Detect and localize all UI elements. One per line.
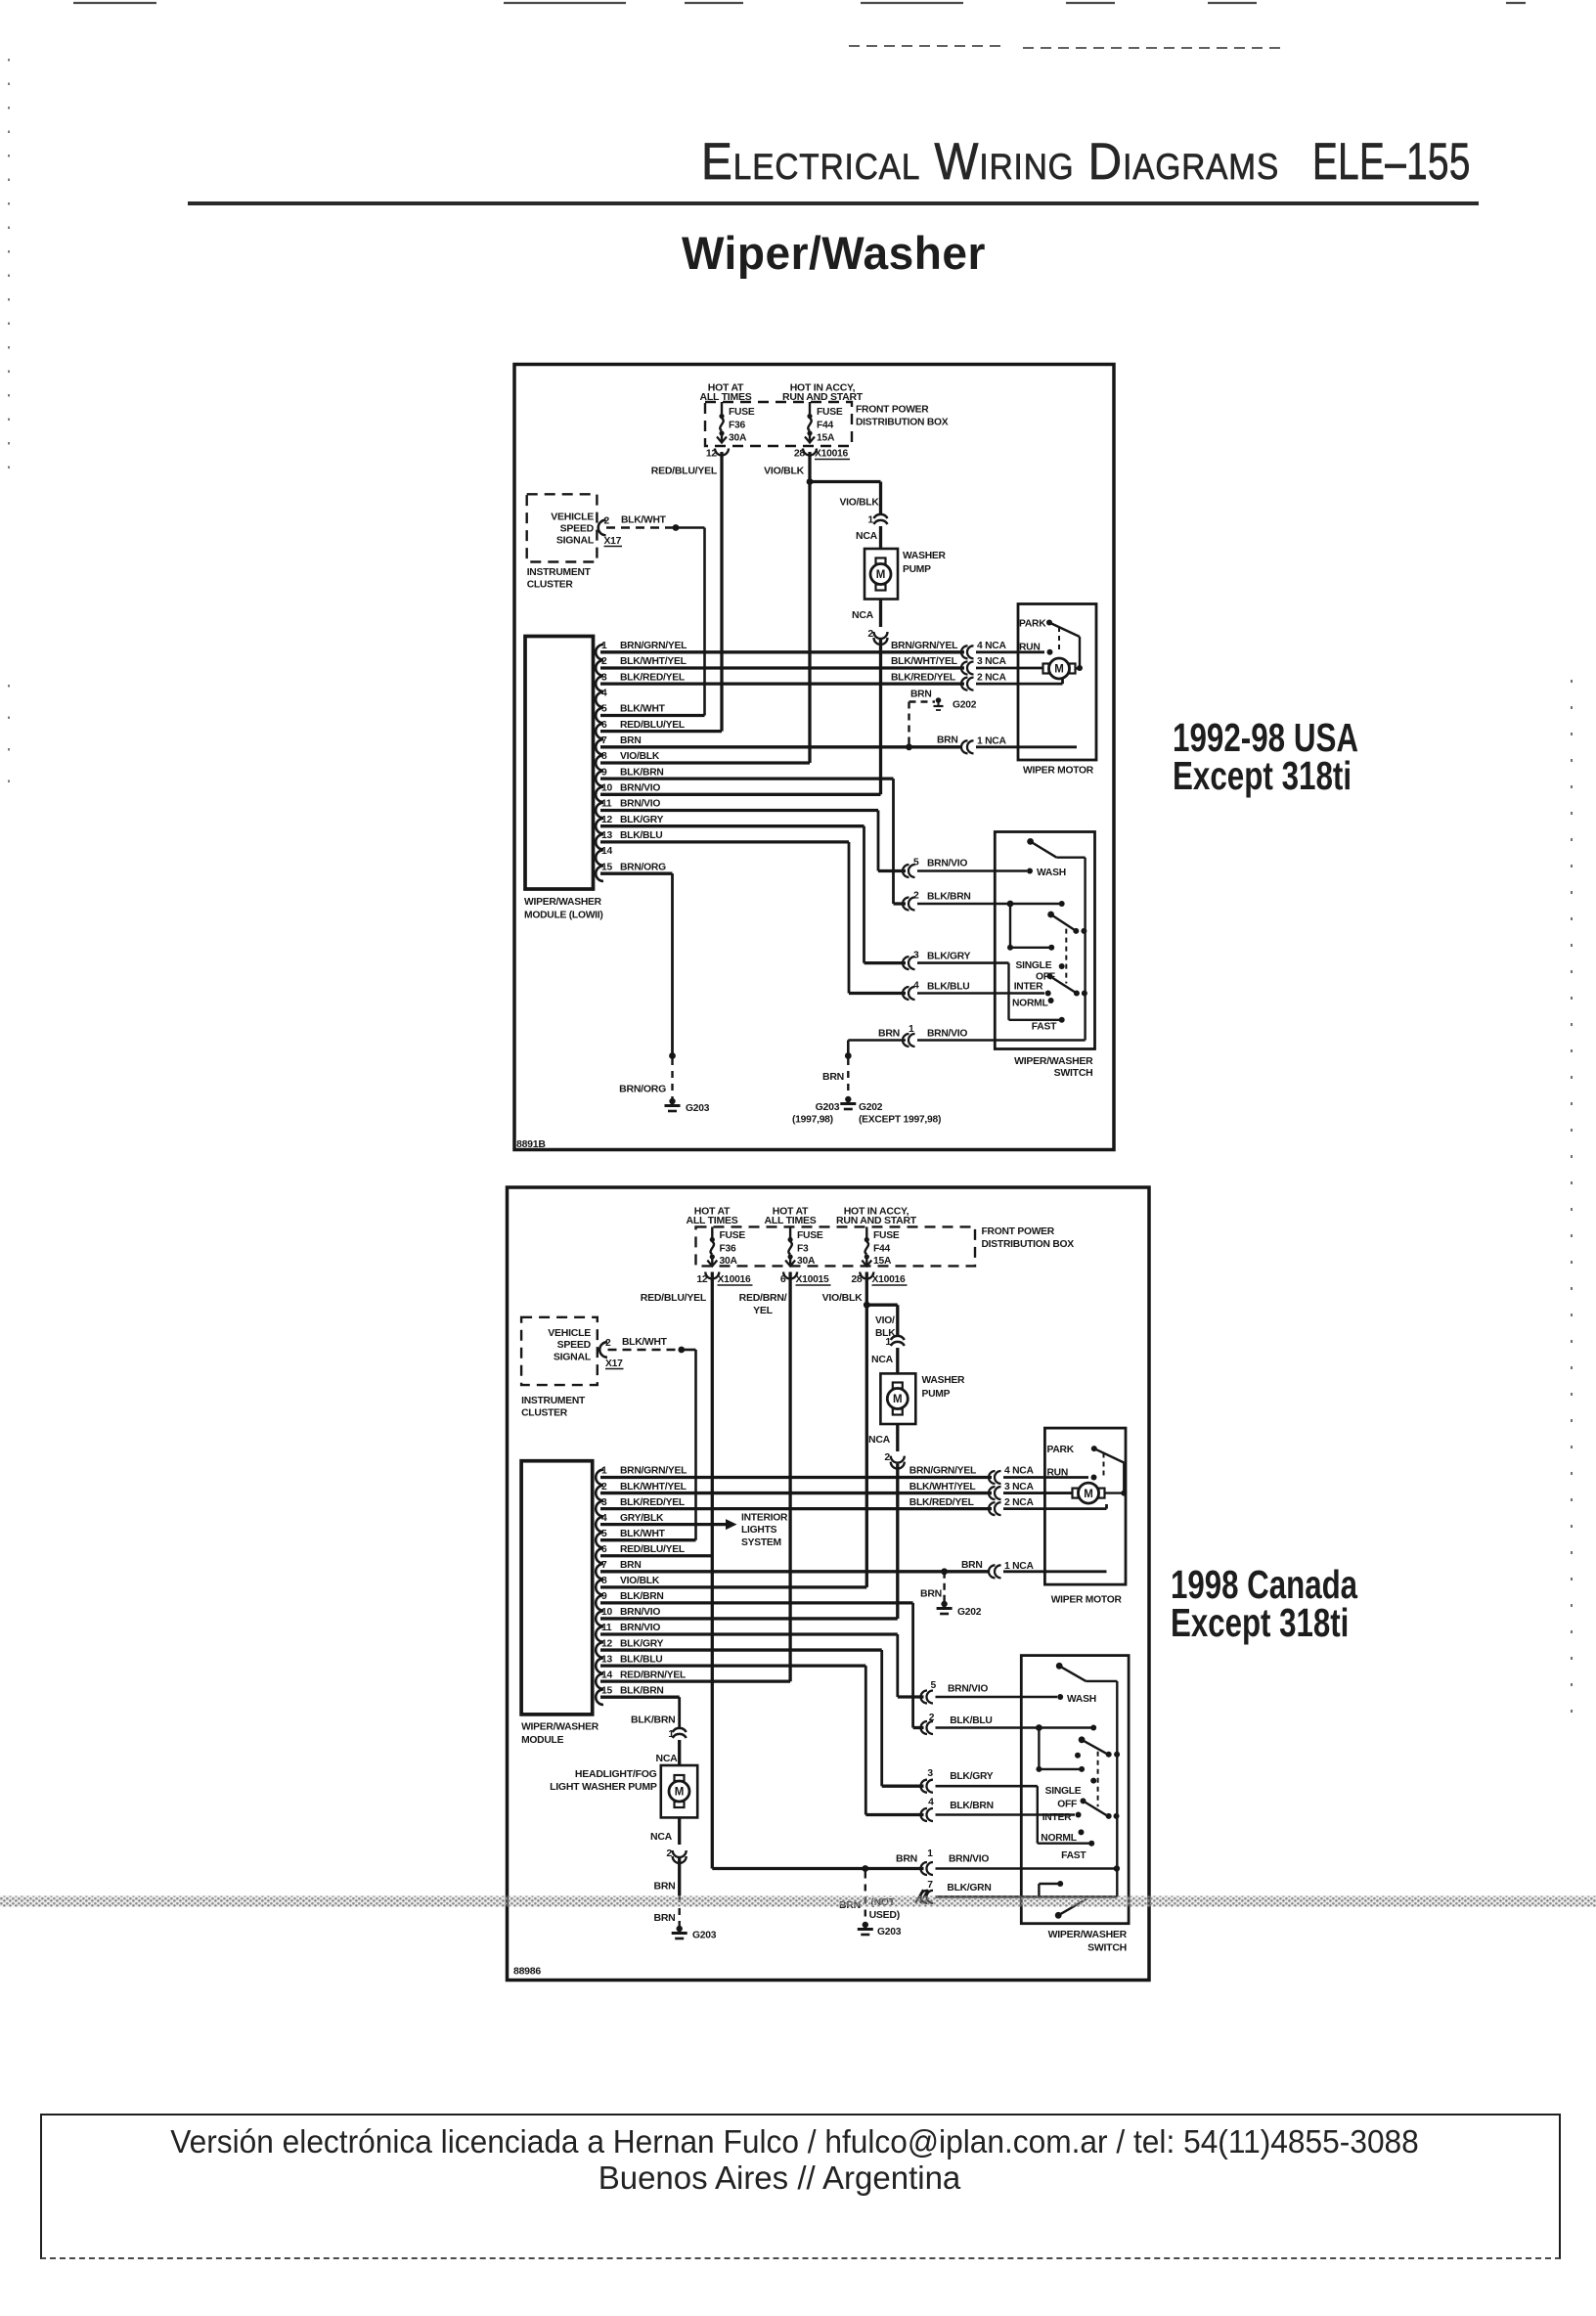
svg-text:RED/BRN/: RED/BRN/ bbox=[739, 1292, 787, 1304]
wiper/washer module box D2 bbox=[521, 1461, 599, 1746]
svg-text:WIPER/WASHER: WIPER/WASHER bbox=[521, 1722, 599, 1733]
svg-text:3: 3 bbox=[927, 1768, 933, 1779]
front power distribution box (dashed) D1 bbox=[705, 402, 949, 446]
module pin 3 BLK/RED/YEL D1 bbox=[596, 672, 964, 691]
wire VIO/BLK from F44 D2 bbox=[822, 1272, 867, 1587]
svg-text:5: 5 bbox=[601, 1529, 607, 1539]
connector X17 pin 2 D1 bbox=[598, 516, 622, 548]
svg-text:5: 5 bbox=[913, 858, 919, 868]
svg-text:G203: G203 bbox=[816, 1101, 840, 1113]
module pin 2 BLK/WHT/YEL D1 bbox=[596, 656, 964, 676]
drawing number 8891B bbox=[516, 1138, 546, 1150]
svg-text:RUN: RUN bbox=[1047, 1468, 1069, 1479]
svg-text:BLK/WHT: BLK/WHT bbox=[621, 515, 667, 526]
svg-text:6: 6 bbox=[601, 1544, 607, 1555]
motor run contact D1 bbox=[1019, 643, 1053, 655]
svg-text:DISTRIBUTION BOX: DISTRIBUTION BOX bbox=[982, 1239, 1075, 1250]
inline connector 3 wire BLK/GRY D1 bbox=[903, 951, 1009, 970]
svg-text:14: 14 bbox=[601, 846, 612, 857]
svg-text:X17: X17 bbox=[604, 536, 622, 547]
svg-text:G202: G202 bbox=[859, 1102, 883, 1113]
svg-text:WASH: WASH bbox=[1037, 868, 1066, 878]
switch dashed detent D1 bbox=[1065, 929, 1067, 984]
wire pin15 BLK/BRN to headlight washer pump D2 bbox=[631, 1697, 680, 1727]
svg-text:F36: F36 bbox=[720, 1244, 737, 1255]
inline connector 2 NCA (pump low) D1 bbox=[852, 600, 888, 646]
inline connector 3 wire BLK/GRY D2 bbox=[921, 1768, 1038, 1793]
ground G203 (module) D1 bbox=[619, 1084, 710, 1115]
motor park contact D2 bbox=[1047, 1445, 1097, 1455]
front power distribution box (dashed) D2 bbox=[696, 1226, 1075, 1266]
svg-text:X10016: X10016 bbox=[718, 1274, 752, 1285]
svg-text:BLK/WHT/YEL: BLK/WHT/YEL bbox=[620, 656, 687, 667]
switch aux contact D2 bbox=[1039, 1881, 1063, 1896]
svg-text:BLK/WHT: BLK/WHT bbox=[620, 1529, 666, 1539]
svg-text:MODULE (LOWII): MODULE (LOWII) bbox=[524, 911, 603, 921]
svg-text:NCA: NCA bbox=[856, 530, 878, 542]
svg-text:FUSE: FUSE bbox=[797, 1230, 823, 1241]
svg-text:12: 12 bbox=[601, 1638, 612, 1649]
wire motor low D1 bbox=[976, 679, 1063, 684]
svg-text:WASHER: WASHER bbox=[922, 1375, 966, 1386]
svg-text:1: 1 bbox=[885, 1336, 891, 1348]
svg-text:30A: 30A bbox=[729, 433, 747, 444]
svg-text:15: 15 bbox=[601, 862, 612, 872]
motor run contact D2 bbox=[1047, 1468, 1097, 1481]
svg-text:M: M bbox=[675, 1787, 685, 1799]
svg-text:(EXCEPT 1997,98): (EXCEPT 1997,98) bbox=[859, 1115, 941, 1126]
svg-text:BLK/RED/YEL: BLK/RED/YEL bbox=[909, 1497, 974, 1508]
scan artifact left margin dots bbox=[8, 59, 10, 802]
switch parked contact D2 bbox=[1036, 1766, 1085, 1772]
svg-text:28: 28 bbox=[851, 1273, 863, 1285]
svg-text:BRN/VIO: BRN/VIO bbox=[927, 859, 967, 869]
module pin 5 BLK/WHT D1 bbox=[596, 704, 704, 724]
svg-text:2: 2 bbox=[601, 1482, 607, 1492]
ground G203 (switch) D2 bbox=[858, 1922, 902, 1937]
svg-text:13: 13 bbox=[601, 1654, 612, 1665]
fuse F44 15A D1 bbox=[794, 402, 843, 460]
svg-text:BRN/VIO: BRN/VIO bbox=[620, 1607, 660, 1618]
node BRN to ground D2 bbox=[839, 1865, 868, 1923]
svg-text:BLK/BLU: BLK/BLU bbox=[950, 1715, 992, 1726]
node: VIO/BLK tap to washer pump D1 bbox=[807, 478, 881, 515]
inline connector 2 NCA (headlight pump low) D2 bbox=[650, 1817, 687, 1863]
svg-text:WIPER/WASHER: WIPER/WASHER bbox=[1048, 1929, 1128, 1940]
svg-text:BRN: BRN bbox=[654, 1912, 676, 1924]
svg-text:VEHICLE: VEHICLE bbox=[551, 512, 594, 523]
svg-text:RED/BLU/YEL: RED/BLU/YEL bbox=[620, 720, 685, 731]
hot-in-accy label D1 bbox=[782, 382, 864, 404]
svg-text:BLK/BRN: BLK/BRN bbox=[950, 1801, 994, 1811]
module pin 15 BLK/BRN D2 bbox=[596, 1685, 679, 1705]
switch wash contact D2 bbox=[1057, 1694, 1096, 1705]
svg-text:BRN/GRN/YEL: BRN/GRN/YEL bbox=[620, 1466, 687, 1477]
svg-text:WASH: WASH bbox=[1067, 1694, 1096, 1705]
module pin 12 BLK/GRY D2 bbox=[596, 1638, 881, 1658]
svg-text:VIO/BLK: VIO/BLK bbox=[840, 498, 880, 509]
connector X10015 D2 bbox=[796, 1274, 831, 1285]
switch OFF position D1 bbox=[1036, 972, 1055, 983]
washer pump M D1 bbox=[864, 549, 947, 600]
svg-text:FRONT POWER: FRONT POWER bbox=[856, 405, 929, 416]
inline connector 2 NCA wire BLK/RED/YEL D1 bbox=[891, 672, 1006, 690]
inline connector 5 wire BRN/VIO (wash) D2 bbox=[921, 1680, 1057, 1704]
ground G203 (headlight pump) D2 bbox=[672, 1926, 717, 1941]
svg-text:FUSE: FUSE bbox=[817, 407, 843, 418]
svg-text:BLK/GRN: BLK/GRN bbox=[947, 1883, 991, 1893]
svg-text:VIO/BLK: VIO/BLK bbox=[620, 751, 660, 762]
svg-text:12: 12 bbox=[601, 815, 612, 825]
svg-text:NCA: NCA bbox=[656, 1753, 679, 1764]
switch NORML position D2 bbox=[1041, 1829, 1084, 1844]
svg-text:BLK/GRY: BLK/GRY bbox=[950, 1771, 994, 1782]
wire label VIO/BLK (pump feed) D1 bbox=[840, 498, 880, 509]
svg-text:INSTRUMENT: INSTRUMENT bbox=[527, 567, 592, 578]
svg-text:4 NCA: 4 NCA bbox=[1004, 1466, 1034, 1477]
inline connector 4 wire BLK/BLU D1 bbox=[903, 981, 1044, 1001]
svg-text:BLK/BLU: BLK/BLU bbox=[927, 982, 969, 993]
svg-text:SWITCH: SWITCH bbox=[1054, 1067, 1093, 1079]
switch INTER position D1 bbox=[1014, 982, 1051, 997]
svg-text:SINGLE: SINGLE bbox=[1016, 960, 1052, 971]
svg-text:4 NCA: 4 NCA bbox=[977, 641, 1006, 651]
module pin 13 BLK/BLU D2 bbox=[596, 1654, 865, 1673]
svg-text:7: 7 bbox=[601, 735, 607, 746]
svg-text:BLK/BLU: BLK/BLU bbox=[620, 1654, 662, 1665]
svg-text:CLUSTER: CLUSTER bbox=[527, 580, 574, 591]
inline connector 3 NCA wire BLK/WHT/YEL D1 bbox=[891, 656, 1006, 674]
inline connector 7 wire BLK/GRN (not used) D2 bbox=[869, 1880, 1118, 1921]
diagram 1 frame (1992-98 USA) bbox=[514, 365, 1114, 1150]
svg-text:RUN AND START: RUN AND START bbox=[782, 391, 864, 403]
svg-text:BRN/ORG: BRN/ORG bbox=[619, 1084, 666, 1095]
svg-text:BRN/VIO: BRN/VIO bbox=[620, 799, 660, 810]
wire label VIO/BLK (pump feed) D2 bbox=[875, 1315, 896, 1339]
wiper/washer switch box D2 bbox=[1021, 1656, 1129, 1954]
switch SINGLE position D1 bbox=[1016, 960, 1065, 971]
scan artifact gray band bbox=[0, 1896, 1596, 1907]
connector X17 pin 2 D2 bbox=[599, 1338, 623, 1369]
svg-text:10: 10 bbox=[601, 783, 612, 794]
node BRN splice D2 bbox=[920, 1568, 948, 1602]
svg-text:M: M bbox=[1084, 1489, 1093, 1500]
svg-text:13: 13 bbox=[601, 830, 612, 841]
svg-text:2 NCA: 2 NCA bbox=[977, 672, 1006, 683]
svg-text:1 NCA: 1 NCA bbox=[977, 736, 1006, 747]
svg-text:RED/BLU/YEL: RED/BLU/YEL bbox=[620, 1544, 685, 1555]
fuse F36 30A D2 bbox=[696, 1226, 745, 1285]
inline connector 1 wire BRN/VIO D2 bbox=[896, 1848, 1120, 1875]
svg-text:USED): USED) bbox=[869, 1909, 900, 1921]
svg-text:2: 2 bbox=[601, 656, 607, 667]
module pin 4 D1 bbox=[596, 689, 607, 708]
wire pin15 BRN/ORG to ground D1 bbox=[669, 873, 676, 1099]
svg-text:NCA: NCA bbox=[852, 609, 874, 621]
svg-text:BRN/VIO: BRN/VIO bbox=[927, 1029, 967, 1040]
svg-text:BRN/GRN/YEL: BRN/GRN/YEL bbox=[620, 641, 687, 651]
svg-text:BLK/BRN: BLK/BRN bbox=[620, 1591, 664, 1602]
svg-text:1: 1 bbox=[601, 641, 607, 651]
wire BRN to ground (headlight pump) D2 bbox=[654, 1858, 680, 1927]
wiper motor M D2 bbox=[1073, 1483, 1125, 1503]
module pin 3 BLK/RED/YEL D2 bbox=[596, 1497, 992, 1517]
wire run contact D1 bbox=[976, 650, 1044, 653]
switch fast branch D1 bbox=[1009, 963, 1065, 1023]
switch FAST label D1 bbox=[1032, 1022, 1057, 1033]
svg-text:NCA: NCA bbox=[871, 1354, 894, 1365]
svg-text:ALL TIMES: ALL TIMES bbox=[765, 1215, 817, 1226]
hot-in-accy label D2 bbox=[836, 1206, 917, 1227]
svg-text:BRN: BRN bbox=[937, 735, 958, 746]
svg-text:F3: F3 bbox=[797, 1244, 809, 1255]
module pin 11 BRN/VIO D1 bbox=[596, 799, 878, 819]
svg-text:BLK/GRY: BLK/GRY bbox=[620, 1638, 664, 1649]
svg-text:2: 2 bbox=[666, 1848, 672, 1859]
wire motor armature D1 bbox=[976, 667, 1043, 670]
svg-text:BLK/WHT/YEL: BLK/WHT/YEL bbox=[891, 656, 957, 667]
interior lights system arrow D2 bbox=[726, 1513, 788, 1549]
svg-text:M: M bbox=[1054, 664, 1064, 676]
svg-text:RED/BLU/YEL: RED/BLU/YEL bbox=[641, 1292, 707, 1304]
svg-text:PARK: PARK bbox=[1019, 619, 1046, 630]
instrument cluster: vehicle speed signal box D1 bbox=[527, 494, 598, 590]
wire riser pin11 to switch 5 D1 bbox=[878, 811, 906, 871]
svg-text:MODULE: MODULE bbox=[521, 1735, 563, 1746]
svg-text:2: 2 bbox=[913, 891, 919, 902]
svg-text:28: 28 bbox=[794, 448, 806, 460]
svg-text:RED/BRN/YEL: RED/BRN/YEL bbox=[620, 1670, 686, 1680]
svg-text:M: M bbox=[876, 569, 886, 581]
svg-text:VIO/BLK: VIO/BLK bbox=[764, 466, 805, 477]
wire RED/BLU/YEL from F36 D2 bbox=[641, 1272, 713, 1869]
svg-text:FAST: FAST bbox=[1032, 1022, 1057, 1033]
switch bottom lever D2 bbox=[1055, 1899, 1087, 1919]
svg-text:1: 1 bbox=[867, 514, 873, 526]
svg-text:GRY/BLK: GRY/BLK bbox=[620, 1513, 664, 1524]
switch speed lever D2 bbox=[1079, 1736, 1120, 1757]
switch wash lever D2 bbox=[1056, 1663, 1118, 1681]
svg-text:NORML: NORML bbox=[1012, 999, 1048, 1009]
svg-text:BRN/ORG: BRN/ORG bbox=[620, 862, 666, 872]
wire BRN to ground D1 bbox=[822, 1041, 852, 1098]
svg-text:BRN: BRN bbox=[878, 1028, 900, 1040]
wire BLK/WHT (speed signal) D1 bbox=[606, 515, 705, 716]
svg-text:SINGLE: SINGLE bbox=[1045, 1786, 1082, 1797]
svg-text:4: 4 bbox=[601, 1513, 607, 1524]
svg-text:5: 5 bbox=[601, 704, 607, 715]
wire riser pin12 to switch 3 D1 bbox=[864, 826, 907, 963]
wire run contact D2 bbox=[1003, 1476, 1088, 1479]
svg-text:SIGNAL: SIGNAL bbox=[554, 1352, 592, 1363]
svg-text:X10015: X10015 bbox=[796, 1274, 830, 1285]
svg-text:15A: 15A bbox=[873, 1256, 892, 1267]
module pin 10 BRN/VIO D2 bbox=[596, 1607, 898, 1626]
motor dashed link D2 bbox=[1103, 1453, 1105, 1477]
inline connector 1 NCA (headlight pump) D2 bbox=[656, 1728, 687, 1765]
motor park contact D1 bbox=[1019, 619, 1052, 630]
svg-text:ALL TIMES: ALL TIMES bbox=[687, 1215, 738, 1226]
wire pump to module pin10 D2 bbox=[896, 1464, 899, 1619]
module pin 14 D1 bbox=[596, 846, 612, 866]
svg-text:BLK/RED/YEL: BLK/RED/YEL bbox=[891, 672, 955, 683]
svg-text:NCA: NCA bbox=[868, 1434, 891, 1446]
svg-text:9: 9 bbox=[601, 767, 607, 778]
svg-text:BRN: BRN bbox=[620, 735, 642, 746]
svg-text:M: M bbox=[893, 1394, 903, 1405]
svg-text:10: 10 bbox=[601, 1607, 612, 1618]
svg-text:2: 2 bbox=[605, 1338, 611, 1349]
svg-text:INTER: INTER bbox=[1014, 982, 1043, 993]
svg-text:12: 12 bbox=[706, 448, 718, 460]
module pin 5 BLK/WHT D2 bbox=[596, 1529, 695, 1548]
wire riser pin9 to switch 2 D2 bbox=[913, 1603, 924, 1728]
svg-text:1: 1 bbox=[601, 1466, 607, 1477]
fuse F3 30A D2 bbox=[780, 1226, 823, 1285]
ground G202 D2 bbox=[937, 1601, 982, 1618]
diagram 2 frame (1998 Canada) bbox=[508, 1187, 1150, 1981]
svg-text:F44: F44 bbox=[817, 421, 834, 431]
switch NORML position D1 bbox=[1012, 998, 1054, 1009]
svg-text:1 NCA: 1 NCA bbox=[1004, 1561, 1034, 1572]
svg-text:12: 12 bbox=[696, 1273, 708, 1285]
module pin 8 VIO/BLK D1 bbox=[596, 751, 810, 771]
svg-text:88986: 88986 bbox=[513, 1966, 541, 1978]
module pin 13 BLK/BLU D1 bbox=[596, 830, 849, 850]
svg-text:LIGHT WASHER PUMP: LIGHT WASHER PUMP bbox=[550, 1781, 657, 1793]
svg-text:YEL: YEL bbox=[753, 1305, 774, 1316]
switch node A D2 bbox=[1036, 1724, 1096, 1769]
switch speed lever D1 bbox=[1047, 912, 1086, 934]
switch inter lever D1 bbox=[1049, 976, 1087, 997]
svg-text:3: 3 bbox=[601, 672, 607, 683]
svg-text:2 NCA: 2 NCA bbox=[1004, 1497, 1034, 1508]
wiper/washer switch box D1 bbox=[995, 832, 1094, 1080]
svg-text:5: 5 bbox=[931, 1680, 937, 1691]
svg-text:FUSE: FUSE bbox=[873, 1230, 900, 1241]
svg-text:FRONT POWER: FRONT POWER bbox=[982, 1226, 1055, 1237]
svg-text:X10016: X10016 bbox=[815, 449, 849, 460]
svg-text:4: 4 bbox=[601, 689, 607, 699]
motor dashed link D1 bbox=[1058, 627, 1060, 650]
svg-text:SYSTEM: SYSTEM bbox=[741, 1537, 781, 1548]
switch small contact dot D2 bbox=[1075, 1753, 1081, 1759]
svg-text:G203: G203 bbox=[877, 1927, 902, 1937]
svg-text:RUN: RUN bbox=[1019, 643, 1041, 653]
svg-text:F36: F36 bbox=[729, 421, 746, 431]
wire VIO/BLK from F44 D1 bbox=[764, 452, 810, 763]
scan artifact dashes top edge bbox=[73, 3, 1526, 48]
svg-text:SPEED: SPEED bbox=[560, 523, 595, 535]
inline connector 2 wire BLK/BRN D1 bbox=[903, 891, 1062, 911]
switch wash lever D1 bbox=[1027, 838, 1085, 858]
svg-text:VIO/BLK: VIO/BLK bbox=[620, 1576, 660, 1586]
module pin 8 VIO/BLK D2 bbox=[596, 1576, 866, 1595]
switch FAST label D2 bbox=[1061, 1850, 1086, 1861]
svg-text:14: 14 bbox=[601, 1670, 612, 1680]
svg-text:BRN/VIO: BRN/VIO bbox=[620, 1623, 660, 1633]
inline connector 1 NCA (pump) D2 bbox=[871, 1336, 905, 1374]
wiper motor M D1 bbox=[1043, 658, 1081, 679]
ground G203/G202 D1 bbox=[792, 1096, 941, 1126]
fuse F36 30A D1 bbox=[706, 402, 755, 460]
svg-text:BLK/WHT: BLK/WHT bbox=[620, 704, 666, 715]
svg-text:2: 2 bbox=[884, 1451, 890, 1463]
svg-text:WIPER MOTOR: WIPER MOTOR bbox=[1051, 1595, 1123, 1606]
svg-text:BLK/WHT/YEL: BLK/WHT/YEL bbox=[620, 1482, 687, 1492]
svg-text:3 NCA: 3 NCA bbox=[977, 656, 1006, 667]
module pin 2 BLK/WHT/YEL D2 bbox=[596, 1482, 992, 1501]
motor park lever D2 bbox=[1094, 1448, 1128, 1496]
svg-text:WASHER: WASHER bbox=[903, 551, 947, 561]
hot-at-all-times label 1 D2 bbox=[687, 1206, 738, 1227]
switch rail D2 bbox=[1116, 1681, 1118, 1897]
inline connector 4 wire BLK/BRN D2 bbox=[921, 1798, 1075, 1822]
svg-text:PUMP: PUMP bbox=[903, 564, 931, 575]
connector X10016 D1 bbox=[815, 449, 850, 460]
svg-text:8: 8 bbox=[601, 1576, 607, 1586]
svg-text:BLK/BRN: BLK/BRN bbox=[631, 1715, 676, 1726]
drawing number 88986 bbox=[513, 1966, 541, 1978]
switch INTER position D2 bbox=[1042, 1812, 1082, 1824]
motor park lever D1 bbox=[1049, 623, 1083, 672]
svg-text:G202: G202 bbox=[957, 1607, 982, 1618]
hot-at-all-times label 2 D2 bbox=[765, 1206, 817, 1227]
svg-text:BRN: BRN bbox=[822, 1071, 844, 1083]
svg-text:BRN/VIO: BRN/VIO bbox=[620, 783, 660, 794]
wire motor low D2 bbox=[1003, 1504, 1107, 1509]
module pin 4 GRY/BLK D2 bbox=[596, 1513, 726, 1533]
svg-text:WIPER MOTOR: WIPER MOTOR bbox=[1023, 766, 1094, 777]
svg-text:30A: 30A bbox=[797, 1256, 816, 1267]
svg-text:7: 7 bbox=[927, 1880, 933, 1891]
svg-text:PUMP: PUMP bbox=[922, 1389, 951, 1400]
wire riser pin12 to switch 3 D2 bbox=[882, 1650, 924, 1786]
svg-text:BLK/GRY: BLK/GRY bbox=[927, 952, 971, 962]
wiper motor box D1 bbox=[1018, 604, 1096, 777]
module pin 7 BRN D1 bbox=[596, 735, 962, 755]
wire RED/BLU/YEL from F36 D1 bbox=[651, 452, 722, 732]
node VIO/BLK tap to washer pump D2 bbox=[864, 1302, 898, 1337]
module pin 9 BLK/BRN D2 bbox=[596, 1591, 912, 1611]
instrument cluster: vehicle speed signal box D2 bbox=[521, 1317, 598, 1419]
svg-text:SWITCH: SWITCH bbox=[1087, 1942, 1127, 1954]
switch OFF position D2 bbox=[1057, 1798, 1086, 1809]
svg-text:CLUSTER: CLUSTER bbox=[521, 1408, 568, 1419]
svg-text:G202: G202 bbox=[953, 700, 977, 711]
svg-text:FUSE: FUSE bbox=[720, 1230, 746, 1241]
svg-text:G203: G203 bbox=[686, 1103, 710, 1114]
node BRN splice D1 bbox=[906, 702, 935, 751]
svg-text:BRN: BRN bbox=[910, 690, 932, 700]
svg-text:NCA: NCA bbox=[650, 1831, 673, 1843]
svg-text:DISTRIBUTION BOX: DISTRIBUTION BOX bbox=[856, 418, 949, 428]
svg-text:HEADLIGHT/FOG: HEADLIGHT/FOG bbox=[575, 1768, 657, 1780]
svg-text:BRN/VIO: BRN/VIO bbox=[948, 1684, 988, 1695]
switch wash contact D1 bbox=[1027, 868, 1066, 878]
svg-text:8: 8 bbox=[601, 751, 607, 762]
svg-text:3: 3 bbox=[601, 1497, 607, 1508]
svg-text:(1997,98): (1997,98) bbox=[792, 1115, 833, 1126]
svg-text:BRN: BRN bbox=[961, 1560, 983, 1571]
svg-text:BLK/WHT/YEL: BLK/WHT/YEL bbox=[909, 1482, 976, 1492]
svg-text:BLK/BRN: BLK/BRN bbox=[620, 1685, 664, 1696]
svg-text:4: 4 bbox=[928, 1798, 934, 1808]
svg-text:NORML: NORML bbox=[1041, 1833, 1077, 1844]
inline connector 2 NCA wire BLK/RED/YEL D2 bbox=[909, 1497, 1035, 1515]
svg-text:SIGNAL: SIGNAL bbox=[556, 535, 595, 547]
svg-text:BRN/GRN/YEL: BRN/GRN/YEL bbox=[909, 1466, 976, 1477]
